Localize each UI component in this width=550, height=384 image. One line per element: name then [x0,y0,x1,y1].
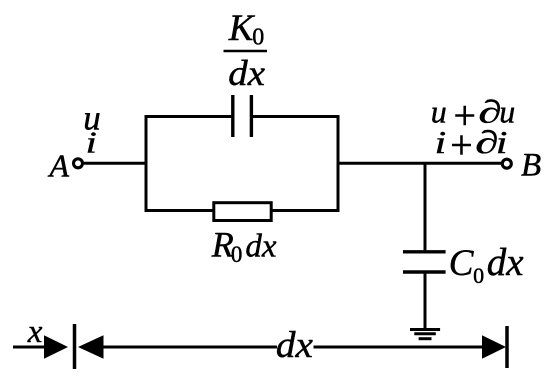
svg-text:0: 0 [252,24,264,50]
svg-text:i: i [86,125,97,159]
svg-text:0: 0 [473,263,484,288]
svg-text:u: u [431,93,447,129]
svg-text:dx: dx [487,241,525,284]
svg-text:dx: dx [228,54,265,93]
svg-text:dx: dx [276,325,313,366]
svg-text:C: C [449,243,475,284]
svg-text:A: A [48,147,70,183]
svg-text:dx: dx [245,228,277,264]
svg-text:x: x [27,314,43,350]
svg-text:u: u [499,93,515,129]
svg-text:0: 0 [231,242,243,267]
svg-text:i: i [496,125,508,160]
svg-text:B: B [521,147,541,183]
svg-text:+: + [448,122,475,168]
svg-text:i: i [435,125,447,160]
